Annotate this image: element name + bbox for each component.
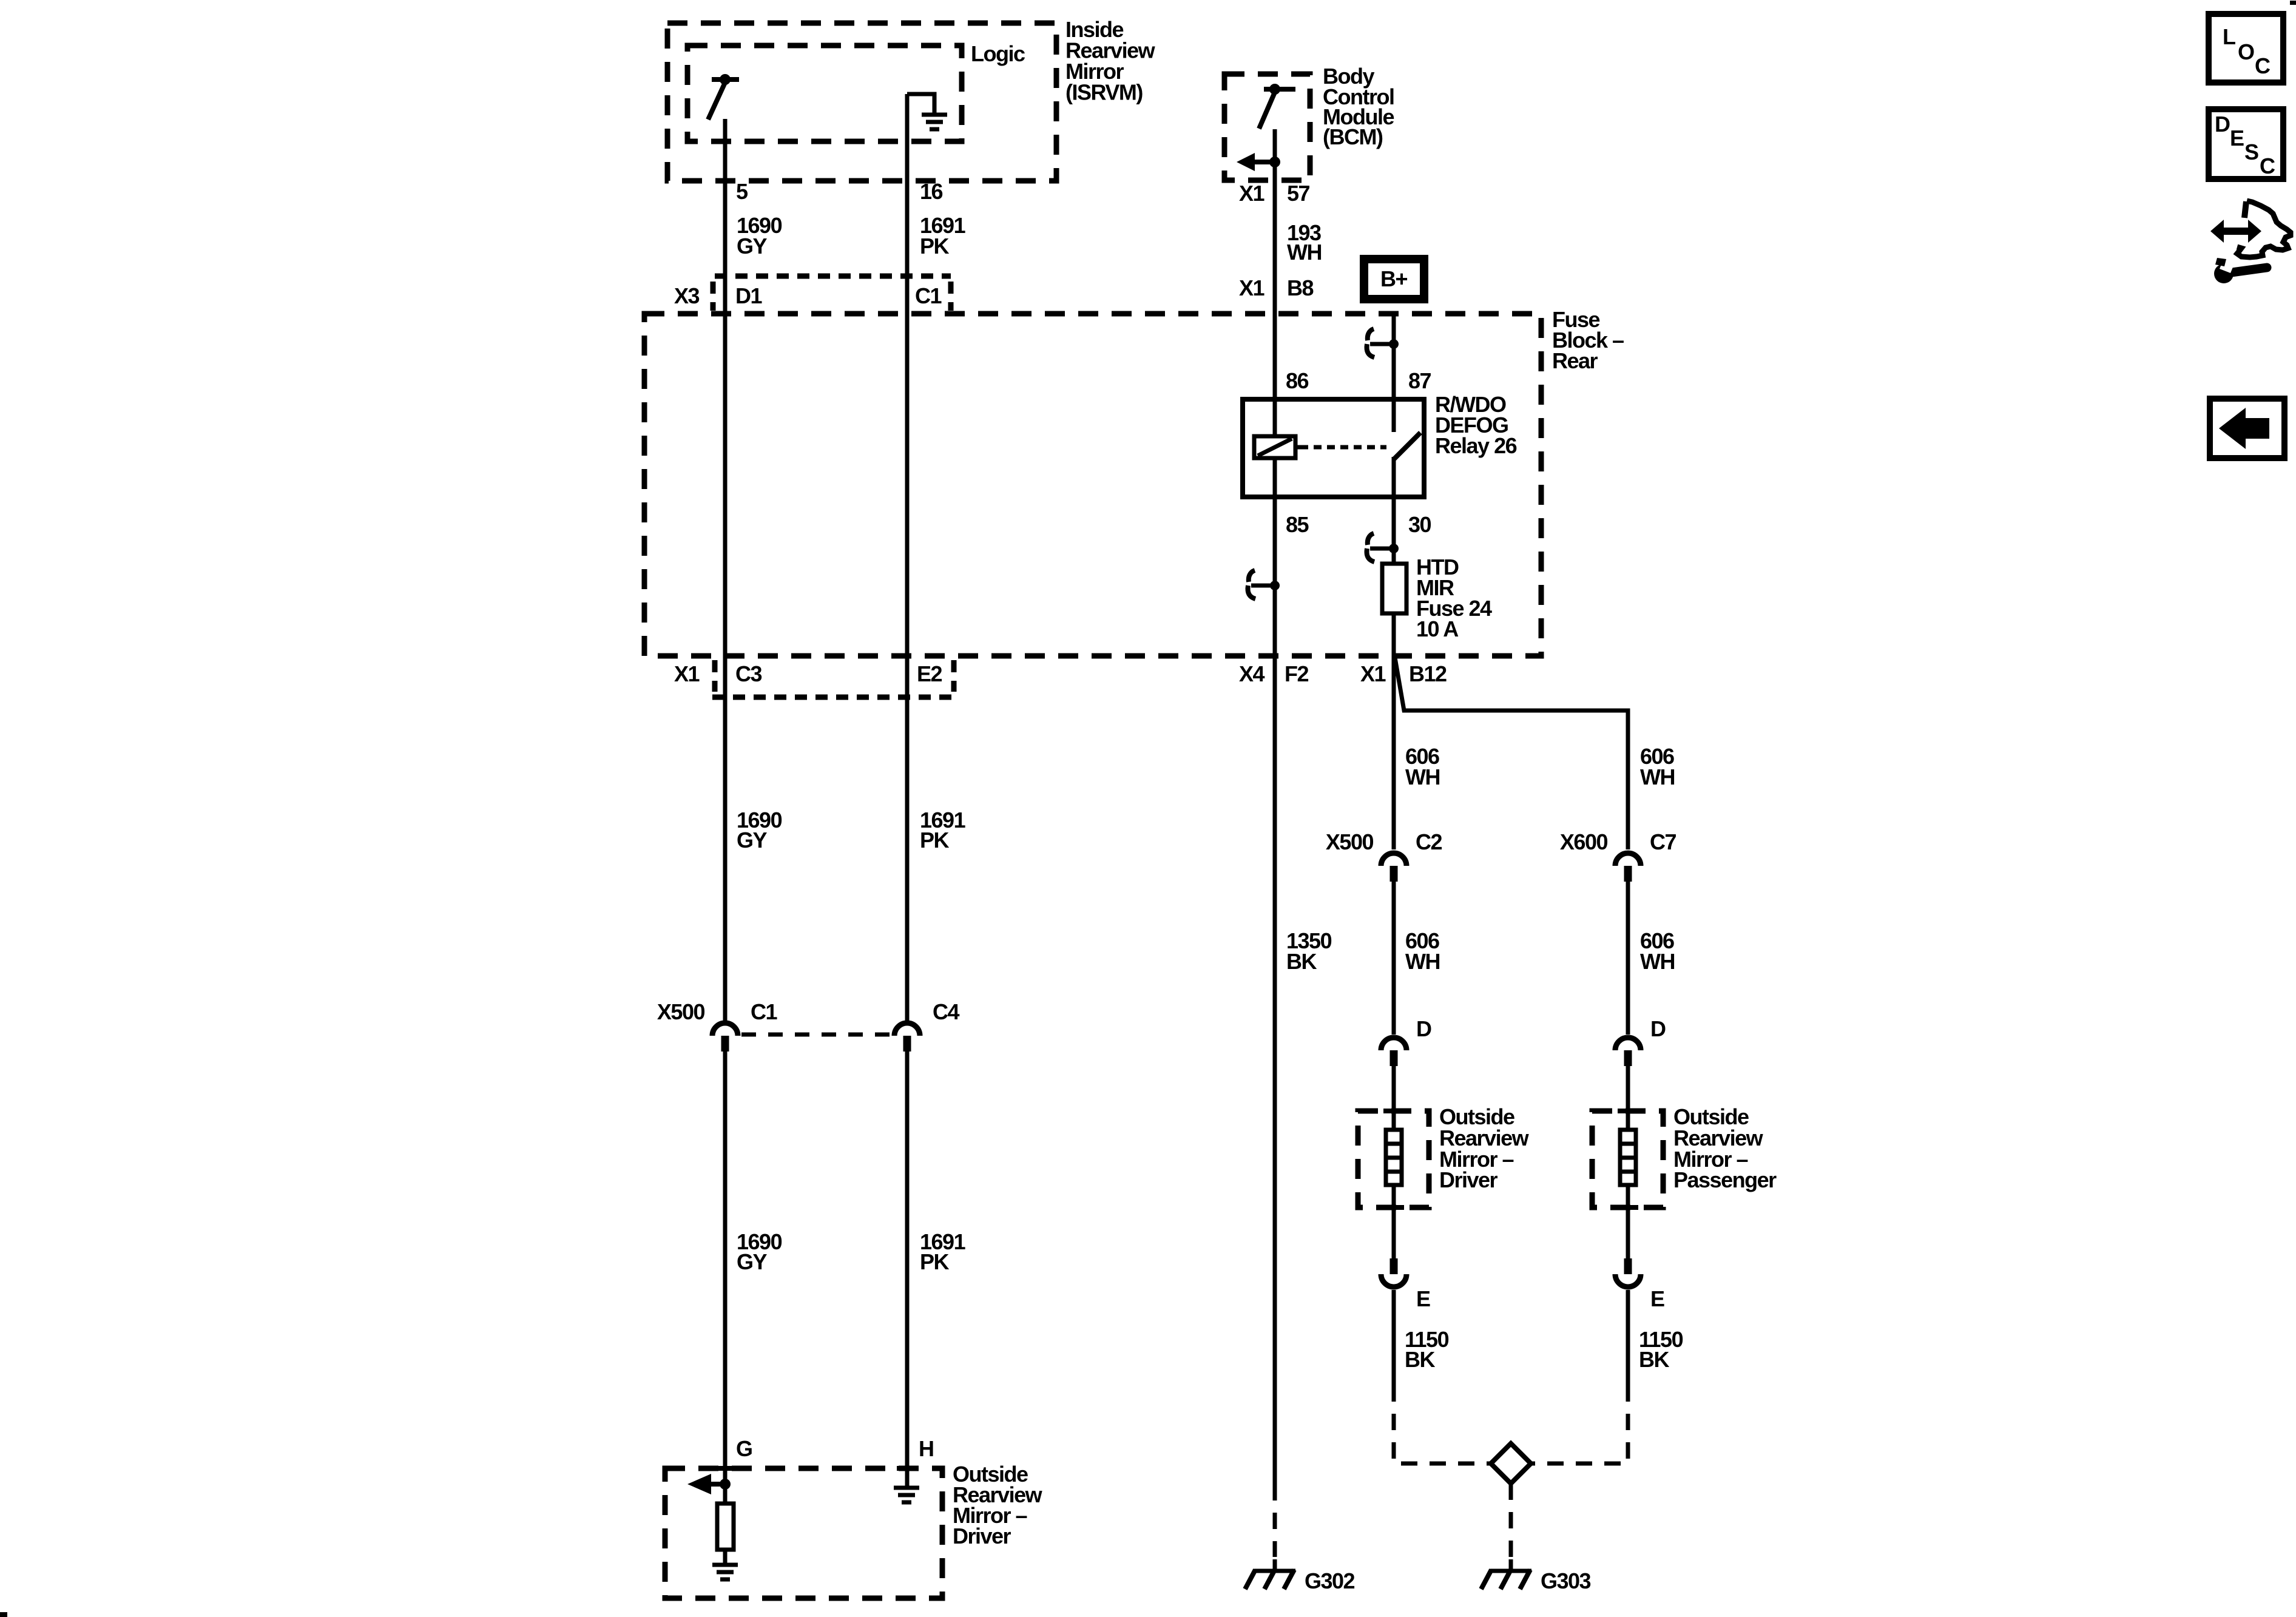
heater element driver bbox=[1386, 1130, 1402, 1185]
svg-text:WH: WH bbox=[1405, 765, 1440, 789]
relay output wire pin 30 bbox=[1392, 457, 1396, 564]
svg-text:(BCM): (BCM) bbox=[1323, 124, 1383, 149]
svg-text:G302: G302 bbox=[1305, 1568, 1355, 1593]
svg-text:57: 57 bbox=[1287, 181, 1310, 206]
svg-text:D1: D1 bbox=[735, 283, 762, 308]
arrow in left mirror box bbox=[687, 1474, 711, 1494]
connector X500 C4 bbox=[894, 1023, 920, 1036]
wire 1690 GY lower bbox=[723, 1052, 728, 1504]
B+ terminal bbox=[1364, 259, 1424, 299]
fuse HTD MIR Fuse 24 10A bbox=[1382, 564, 1406, 613]
splice diamond bbox=[1491, 1443, 1531, 1484]
svg-text:C: C bbox=[2255, 53, 2271, 78]
wire E to splice passenger bbox=[1626, 1290, 1630, 1385]
svg-text:WH: WH bbox=[1640, 949, 1675, 974]
svg-text:GY: GY bbox=[737, 1249, 768, 1274]
ground at pin H bbox=[894, 1486, 919, 1490]
svg-text:BK: BK bbox=[1286, 949, 1317, 974]
ground below resistor bbox=[712, 1563, 738, 1567]
box Outside Rearview Mirror - Passenger bbox=[1592, 1111, 1663, 1207]
connector X3 row bbox=[715, 274, 951, 279]
svg-text:B12: B12 bbox=[1409, 661, 1447, 686]
RELAY 26 R/WDO DEFOG bbox=[1243, 399, 1424, 497]
connector X600 C7 bbox=[1615, 853, 1641, 866]
svg-text:C: C bbox=[2260, 154, 2275, 178]
svg-text:(ISRVM): (ISRVM) bbox=[1065, 80, 1143, 105]
svg-text:WH: WH bbox=[1287, 240, 1322, 265]
svg-text:Rear: Rear bbox=[1552, 348, 1598, 373]
wire C2 to D driver bbox=[1392, 882, 1396, 1035]
LOC button bbox=[2209, 14, 2283, 83]
svg-text:16: 16 bbox=[920, 179, 943, 204]
svg-text:PK: PK bbox=[920, 1249, 950, 1274]
hook terminal on 30 wire bbox=[1367, 533, 1375, 562]
svg-text:B8: B8 bbox=[1287, 275, 1313, 300]
wire branch B12 to passenger side bbox=[1395, 658, 1628, 849]
wire C7 to D passenger bbox=[1626, 882, 1630, 1035]
hook terminal on 87 feed bbox=[1367, 329, 1375, 357]
wire 1690 GY upper (pin 5 to X3 D1 to X500 C1) bbox=[723, 119, 728, 1023]
svg-text:PK: PK bbox=[920, 828, 950, 852]
svg-text:H: H bbox=[919, 1436, 934, 1461]
svg-text:X500: X500 bbox=[1326, 829, 1374, 854]
svg-text:X600: X600 bbox=[1560, 829, 1608, 854]
FUSE BLOCK REAR box bbox=[644, 314, 1541, 656]
svg-text:Logic: Logic bbox=[971, 41, 1025, 66]
relay coil bbox=[1254, 436, 1295, 458]
svg-text:E2: E2 bbox=[917, 661, 942, 686]
box Outside Rearview Mirror - Driver bbox=[1358, 1111, 1429, 1207]
svg-text:WH: WH bbox=[1640, 765, 1675, 789]
wire 1691 PK lower bbox=[905, 1052, 910, 1488]
corner mark bottom left bbox=[0, 1612, 7, 1617]
wire 193 WH (BCM X1-57 to fuse block X1-B8 down to G302) bbox=[1273, 129, 1277, 1484]
svg-text:X1: X1 bbox=[674, 661, 700, 686]
resistor mirror heater driver bbox=[717, 1504, 734, 1550]
connector X1 row (C3 / E2) bbox=[712, 660, 718, 692]
svg-text:X3: X3 bbox=[674, 283, 700, 308]
svg-text:E: E bbox=[1416, 1286, 1430, 1311]
svg-text:X1: X1 bbox=[1239, 275, 1265, 300]
svg-text:L: L bbox=[2223, 24, 2235, 49]
svg-text:85: 85 bbox=[1286, 512, 1309, 537]
svg-text:PK: PK bbox=[920, 234, 950, 258]
svg-text:F2: F2 bbox=[1285, 661, 1308, 686]
switch S1 in ISRVM logic bbox=[712, 77, 739, 82]
hook terminal on 85 wire bbox=[1248, 570, 1256, 599]
connector E passenger bbox=[1624, 1258, 1632, 1274]
node junction on G wire bbox=[720, 1479, 731, 1490]
svg-text:O: O bbox=[2238, 39, 2254, 64]
box Logic bbox=[687, 46, 962, 141]
svg-text:86: 86 bbox=[1286, 368, 1309, 393]
svg-text:10 A: 10 A bbox=[1416, 616, 1459, 641]
ground in ISRVM logic bbox=[907, 94, 934, 113]
svg-text:Driver: Driver bbox=[1439, 1167, 1498, 1192]
connector X500 C1 bbox=[712, 1023, 738, 1036]
svg-text:B+: B+ bbox=[1380, 266, 1407, 291]
svg-text:D: D bbox=[2215, 112, 2230, 137]
box Body Control Module (BCM) bbox=[1224, 74, 1310, 180]
svg-text:WH: WH bbox=[1405, 949, 1440, 974]
svg-text:G: G bbox=[736, 1436, 752, 1461]
relay blade bbox=[1394, 433, 1420, 459]
node junction BCM output bbox=[1269, 157, 1280, 167]
svg-text:E: E bbox=[1650, 1286, 1664, 1311]
svg-text:X1: X1 bbox=[1360, 661, 1386, 686]
svg-text:X500: X500 bbox=[657, 999, 705, 1024]
ground G303 bbox=[1509, 1559, 1513, 1570]
wire fuse to B12 bbox=[1392, 613, 1396, 849]
svg-text:C1: C1 bbox=[751, 999, 777, 1024]
box Outside Rearview Mirror - Driver (left) bbox=[665, 1468, 942, 1598]
heater element passenger bbox=[1620, 1130, 1636, 1185]
relay coil-switch dashed link bbox=[1300, 445, 1386, 450]
svg-text:S: S bbox=[2244, 140, 2258, 164]
svg-text:Passenger: Passenger bbox=[1673, 1167, 1777, 1192]
svg-text:C7: C7 bbox=[1650, 829, 1676, 854]
switch in BCM bbox=[1264, 87, 1295, 92]
arrow in BCM bbox=[1237, 153, 1255, 171]
svg-text:C1: C1 bbox=[915, 283, 942, 308]
wire D to heater driver bbox=[1392, 1066, 1396, 1130]
wire splice to G303 bbox=[1509, 1484, 1513, 1561]
DESC button bbox=[2209, 109, 2283, 179]
connector D passenger bbox=[1615, 1038, 1641, 1050]
svg-text:Driver: Driver bbox=[953, 1524, 1011, 1548]
svg-text:X4: X4 bbox=[1239, 661, 1265, 686]
wire 1350 BK to G302 dashed bbox=[1273, 1484, 1277, 1557]
svg-text:E: E bbox=[2230, 126, 2244, 150]
svg-text:87: 87 bbox=[1408, 368, 1431, 393]
svg-text:C4: C4 bbox=[933, 999, 959, 1024]
svg-text:5: 5 bbox=[736, 179, 748, 204]
connector-view icon (car with arrow and wrench) bbox=[2210, 201, 2291, 283]
connector D driver bbox=[1381, 1038, 1406, 1050]
svg-text:X1: X1 bbox=[1239, 181, 1265, 206]
corner mark top right bbox=[2290, 1, 2296, 5]
dashed link C1-C4 bbox=[741, 1033, 892, 1037]
connector X500 C2 bbox=[1381, 853, 1406, 866]
back button bbox=[2210, 399, 2284, 458]
wire B+ feed bbox=[1392, 315, 1396, 399]
svg-text:BK: BK bbox=[1639, 1347, 1669, 1372]
svg-text:C2: C2 bbox=[1416, 829, 1442, 854]
svg-text:D: D bbox=[1650, 1016, 1666, 1041]
svg-text:C3: C3 bbox=[735, 661, 761, 686]
svg-text:D: D bbox=[1416, 1016, 1431, 1041]
svg-text:G303: G303 bbox=[1541, 1568, 1591, 1593]
relay fixed contact 87 bbox=[1392, 399, 1396, 432]
svg-text:GY: GY bbox=[737, 234, 768, 258]
ground G302 bbox=[1273, 1559, 1277, 1570]
svg-text:30: 30 bbox=[1408, 512, 1431, 537]
svg-text:GY: GY bbox=[737, 828, 768, 852]
wire to ground bbox=[723, 1550, 728, 1564]
wire E to splice driver bbox=[1392, 1290, 1396, 1385]
box Inside Rearview Mirror (ISRVM) bbox=[667, 23, 1056, 181]
connector E driver bbox=[1390, 1258, 1398, 1274]
svg-text:Relay 26: Relay 26 bbox=[1435, 433, 1517, 458]
wire heater to E driver bbox=[1392, 1185, 1396, 1258]
wire 1691 PK upper (pin 16 to X3 C1 to X500 C4) bbox=[905, 94, 910, 1023]
svg-text:BK: BK bbox=[1405, 1347, 1435, 1372]
